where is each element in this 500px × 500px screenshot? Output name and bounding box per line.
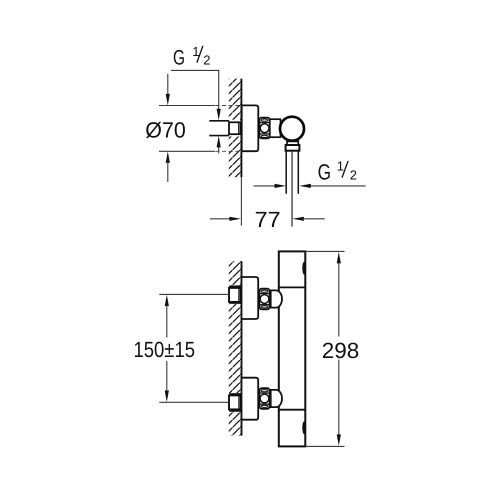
svg-text:Ø70: Ø70 bbox=[145, 117, 186, 142]
wall cutout for supply pipe bbox=[228, 120, 242, 137]
collar ring bbox=[286, 145, 300, 151]
svg-text:2: 2 bbox=[203, 52, 210, 67]
wall cutouts at unions bbox=[228, 285, 242, 304]
wall face extension (thin, to 77 dim) bbox=[240, 177, 242, 226]
union nut (top drawing) bbox=[259, 118, 269, 139]
upper in-wall square bbox=[229, 288, 241, 302]
svg-text:2: 2 bbox=[350, 167, 357, 182]
neck below circle bbox=[287, 141, 298, 145]
pipe centerline bbox=[291, 151, 293, 227]
svg-text:298: 298 bbox=[322, 338, 360, 363]
dimension Ø70 arrows bbox=[167, 74, 169, 96]
upper inlet dome bbox=[271, 290, 282, 307]
dimension 150±15 bbox=[165, 295, 169, 307]
extension line Ø70 bottom (dash through wall) bbox=[216, 150, 242, 152]
escutcheon flange (top drawing) bbox=[242, 105, 259, 151]
svg-text:1: 1 bbox=[337, 159, 344, 174]
dimension 298 extension lines bbox=[305, 250, 344, 252]
label G1/2 (top left) bbox=[173, 44, 210, 70]
valve body circle bbox=[280, 117, 304, 141]
wall hatch (top view wall section) bbox=[229, 79, 242, 178]
svg-text:G: G bbox=[318, 159, 331, 184]
shower outlet pipe bbox=[286, 151, 298, 194]
wall hatch (bottom) bbox=[229, 261, 242, 435]
valve inlet connector bbox=[270, 119, 281, 137]
lower inlet dome bbox=[271, 390, 282, 407]
svg-text:77: 77 bbox=[255, 207, 281, 232]
lower union nut bbox=[259, 388, 269, 409]
lower escutcheon bbox=[242, 378, 259, 420]
svg-text:G: G bbox=[173, 46, 185, 69]
up arrow at pipe bottom edge bbox=[218, 146, 220, 154]
dimension G1/2 pipe arrows bbox=[254, 185, 277, 187]
supply pipe in wall (side view) bbox=[209, 120, 229, 122]
label G1/2 (right of pipe) bbox=[318, 159, 357, 185]
knob separator lines bbox=[279, 286, 306, 288]
knob grip marks bbox=[302, 262, 306, 275]
upper union nut bbox=[259, 289, 269, 310]
extension line Ø70 top (dash through wall) bbox=[216, 105, 242, 107]
dimension 150±15 extension lines bbox=[159, 293, 229, 295]
upper in-wall fitting caps bbox=[229, 285, 241, 287]
thermostat body bar bbox=[279, 251, 306, 446]
lower in-wall fitting caps bbox=[229, 393, 241, 395]
dimension 298 bbox=[337, 252, 341, 264]
in-wall elbow square bbox=[229, 122, 240, 134]
wall face line (bottom drawing) bbox=[241, 261, 243, 435]
wall face line (top drawing) bbox=[240, 79, 242, 178]
dimension 77 bbox=[210, 218, 231, 220]
upper escutcheon bbox=[242, 277, 259, 319]
dimension Ø70 extension lines bbox=[159, 105, 215, 107]
svg-text:150±15: 150±15 bbox=[134, 337, 196, 362]
leader G1/2 top bbox=[171, 70, 219, 110]
lower in-wall square bbox=[229, 395, 241, 409]
